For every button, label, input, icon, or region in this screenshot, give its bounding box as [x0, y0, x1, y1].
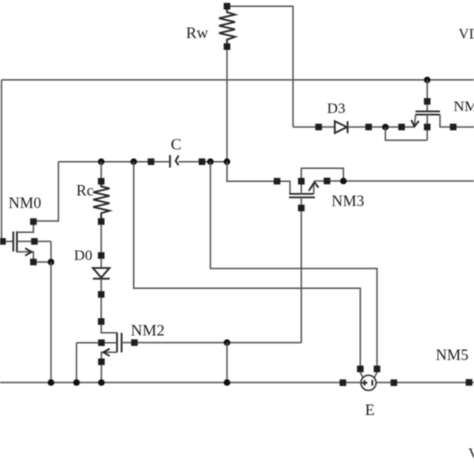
- transistor NM0: [0, 162, 58, 266]
- wire D3 anode line (x=293 to D3): [293, 126, 335, 128]
- resistor Rw: [219, 3, 235, 50]
- svg-text:NM4: NM4: [454, 99, 474, 115]
- junction dot rail/NM0: [48, 379, 55, 386]
- node A line (y=162): [58, 161, 227, 163]
- resistor Rc: [93, 162, 109, 225]
- junction dot node/left drop: [130, 158, 137, 165]
- svg-text:NM3: NM3: [332, 193, 365, 210]
- svg-text:NM0: NM0: [9, 195, 42, 212]
- svg-text:Rw: Rw: [186, 25, 209, 42]
- transistor NM3: [289, 168, 474, 342]
- wire NM0 source to ground rail: [50, 262, 52, 383]
- junction dot rail/NM2 source: [98, 379, 105, 386]
- terminal square rail far right (NM5): [466, 379, 473, 386]
- wire Rc to D0: [100, 225, 102, 253]
- wire node to inner loop (down at x=133.7, right, down to E left): [134, 162, 363, 378]
- wire top rail VDD: [2, 79, 474, 81]
- capacitor C: [170, 155, 179, 168]
- junction dot node/Rw: [224, 158, 231, 165]
- svg-text:Rc: Rc: [76, 183, 93, 200]
- transistor NM4: [385, 80, 474, 140]
- wire NM2 gate to NM3 gate: [138, 342, 302, 344]
- wire left rail (top rail to NM0 gate): [1, 80, 3, 242]
- wire D0 to NM2 drain: [100, 298, 102, 319]
- svg-text:D3: D3: [327, 101, 345, 117]
- junction dot rail/NM2 body: [73, 379, 80, 386]
- ground rail bottom: [0, 382, 474, 384]
- terminal square above E right: [374, 366, 381, 373]
- wire Rw bottom to node: [226, 50, 228, 162]
- diode D0: [93, 252, 110, 298]
- svg-text:D0: D0: [74, 248, 92, 264]
- wire NM2 body to ground rail: [76, 343, 78, 383]
- terminal square D3 anode: [315, 124, 322, 131]
- junction dot node/Rc: [98, 158, 105, 165]
- junction dot gate wire branch: [224, 339, 231, 346]
- terminal square rail left of E: [340, 379, 347, 386]
- wire node to outer loop (down at x=210.4, right, down to E right): [210, 162, 377, 378]
- wire Rw top to D3 anode (right, down): [230, 6, 293, 127]
- svg-text:NM5: NM5: [436, 347, 469, 364]
- transistor NM2: [77, 318, 138, 382]
- wire node to NM3 drain: [227, 162, 290, 194]
- terminal square D3 cathode: [365, 124, 372, 131]
- junction dot rail/gate branch: [224, 379, 231, 386]
- terminal square rail right of E: [391, 379, 398, 386]
- svg-text:NM2: NM2: [131, 323, 165, 340]
- junction dot D3/body loop: [382, 124, 389, 131]
- junction dot node/right drop: [207, 158, 214, 165]
- wire D3 cathode to NM4 source: [348, 126, 415, 128]
- current source E: [361, 375, 376, 390]
- terminal square above E left: [357, 366, 364, 373]
- wire gate branch to ground rail: [226, 343, 228, 383]
- junction dot NM0 source/body: [48, 259, 55, 266]
- junction dot top rail / NM4 gate: [424, 77, 431, 84]
- svg-text:VDD: VDD: [459, 27, 474, 43]
- junction dot NM3 source/body: [340, 178, 347, 185]
- terminal square NM4 source: [398, 124, 405, 131]
- terminal square NM3 drain: [274, 178, 281, 185]
- terminal square node line left: [148, 158, 155, 165]
- svg-text:C: C: [171, 136, 182, 153]
- terminal square node line right: [199, 158, 206, 165]
- diode D3: [335, 121, 348, 133]
- svg-text:E: E: [365, 402, 375, 419]
- svg-text:V: V: [468, 446, 474, 462]
